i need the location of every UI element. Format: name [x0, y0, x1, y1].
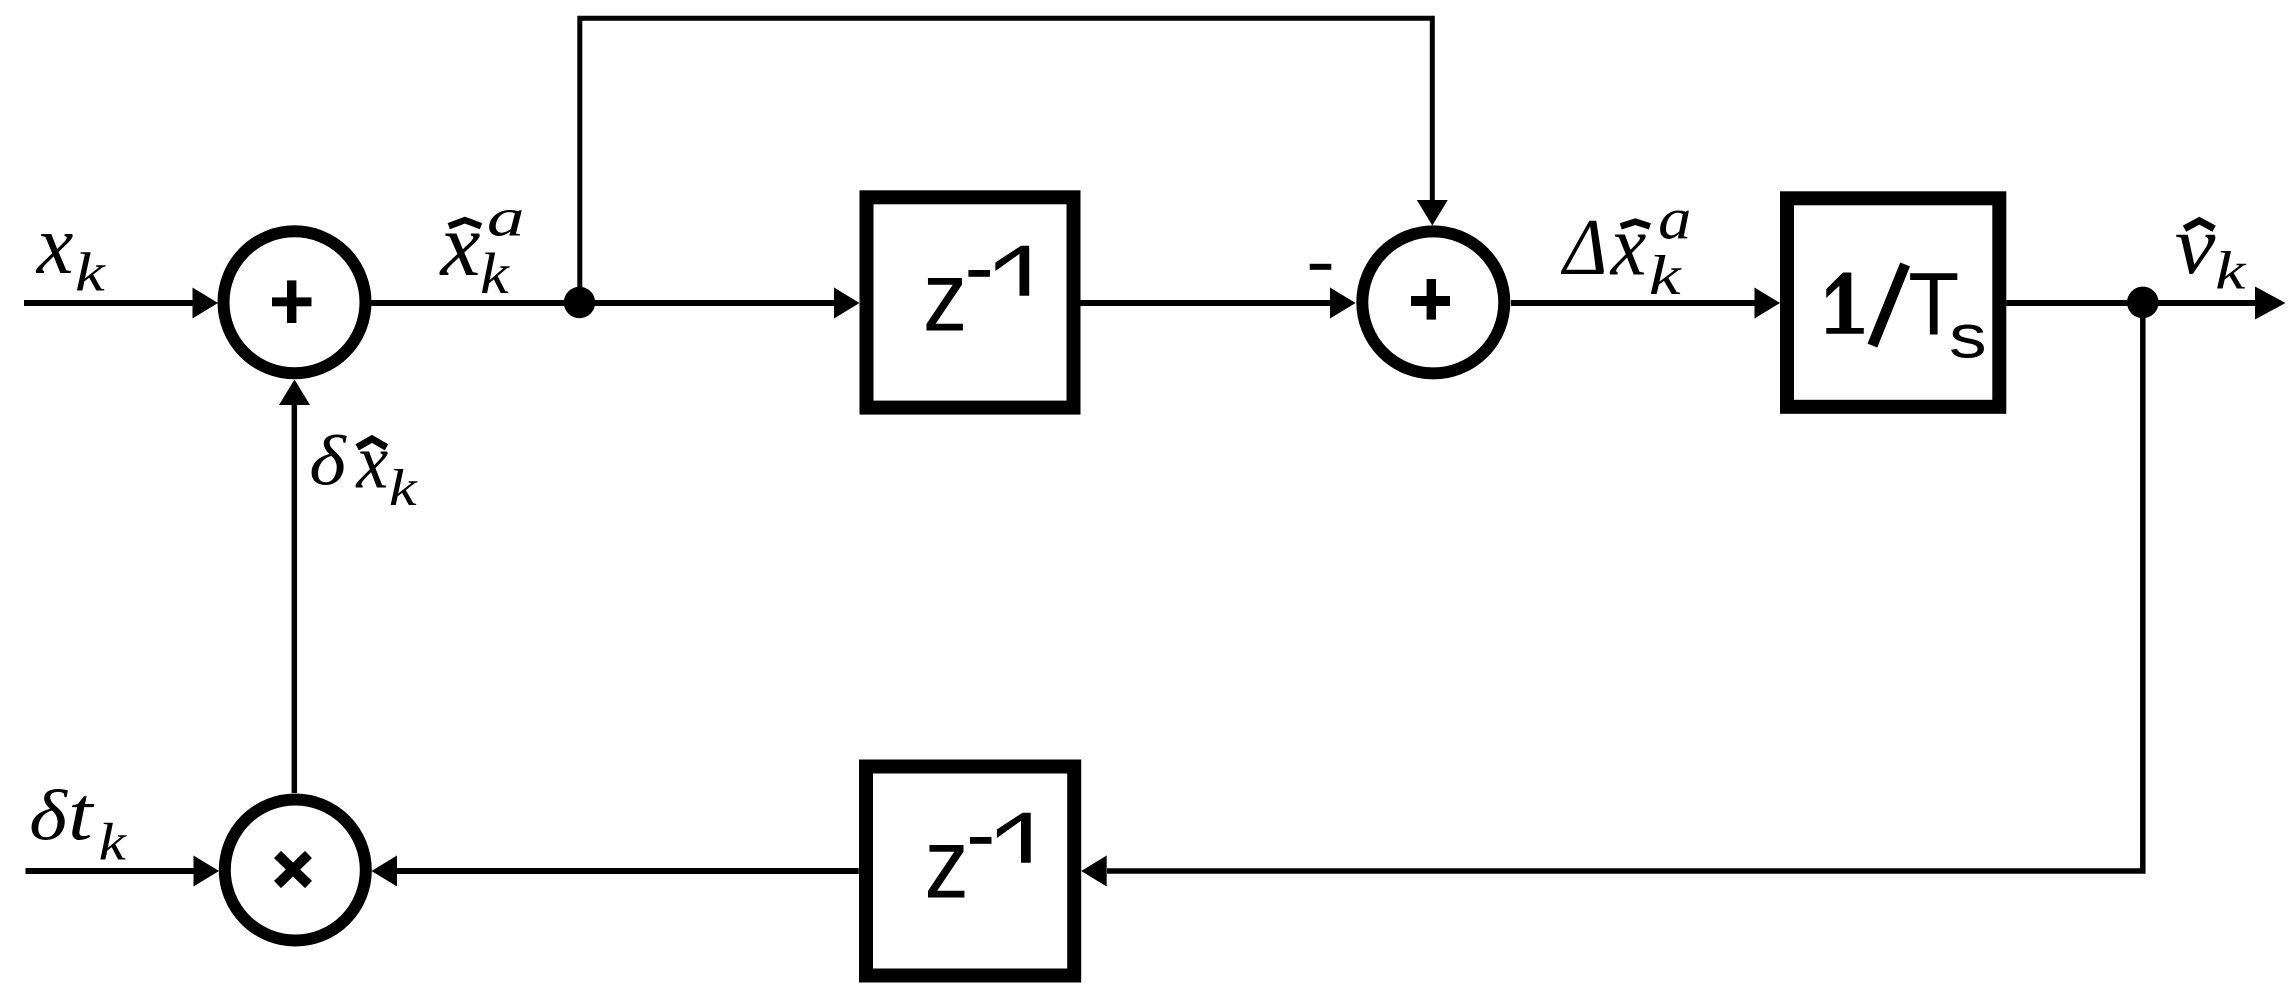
- wire Z1 to S2 with arrowhead: [1081, 288, 1356, 319]
- wire G output to v_k with arrowhead: [2006, 287, 2285, 320]
- wire S1 to block Z1 with arrowhead: [372, 288, 860, 319]
- svg-text:δ: δ: [29, 776, 68, 856]
- svg-text:x: x: [355, 419, 388, 506]
- wire input x_k with arrowhead: [24, 288, 218, 319]
- label Delta xhat_k^a: [1560, 186, 1691, 306]
- svg-text:Δ: Δ: [1560, 201, 1607, 291]
- wire S2 to block G with arrowhead: [1511, 288, 1780, 319]
- wire Z2 to multiplier M1 with arrowhead: [372, 856, 859, 887]
- svg-text:x: x: [1609, 199, 1647, 294]
- block Z1: z^-1 (top delay): [867, 197, 1074, 407]
- svg-text:δ: δ: [309, 422, 347, 501]
- label delta t_k: [29, 772, 127, 872]
- svg-text:k: k: [2215, 241, 2247, 301]
- svg-text:k: k: [1649, 245, 1683, 307]
- svg-text:k: k: [389, 460, 418, 517]
- svg-text:z: z: [923, 241, 967, 352]
- wire feedback: riser, top run, drop into S2 with arrowhead: [580, 18, 1448, 303]
- wire M1 up to S1 with arrowhead: [279, 380, 310, 794]
- svg-text:x: x: [439, 196, 481, 295]
- summing junction S2 (+): [1362, 231, 1504, 373]
- block Z2: z^-1 (bottom delay): [866, 767, 1074, 976]
- svg-text:a: a: [1658, 186, 1691, 252]
- node A (junction dot): [564, 287, 595, 318]
- svg-text:x: x: [35, 198, 74, 292]
- summing junction S1 (+): [224, 231, 366, 373]
- svg-text:z: z: [924, 808, 968, 919]
- label delta xhat_k: [309, 419, 418, 517]
- wire node B down and left to block Z2 with arrowhead: [1081, 303, 2143, 887]
- label minus sign at S2: [1310, 264, 1332, 270]
- label vhat_k: [2175, 199, 2247, 301]
- svg-text:t: t: [68, 772, 95, 856]
- svg-text:k: k: [480, 242, 510, 306]
- svg-text:v: v: [2175, 199, 2216, 291]
- wire input delta t_k with arrowhead: [26, 856, 220, 887]
- multiplier M1 (x): [225, 800, 366, 941]
- label x_k: [35, 198, 107, 303]
- svg-text:s: s: [1949, 302, 1987, 371]
- svg-text:a: a: [487, 188, 525, 248]
- node B (junction dot at output): [2127, 287, 2159, 319]
- svg-text:k: k: [99, 813, 128, 871]
- label xhat_k^a: [439, 188, 525, 307]
- block G: 1/Ts (gain): [1787, 198, 1999, 406]
- svg-text:k: k: [75, 242, 107, 303]
